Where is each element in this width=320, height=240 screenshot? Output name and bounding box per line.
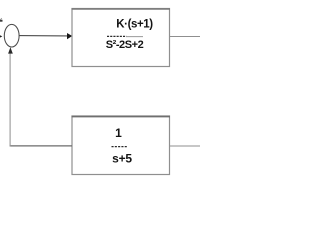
summing junction <box>4 24 19 47</box>
arrowhead into forward block <box>67 33 72 39</box>
arrowhead into summing junction (feedback) <box>8 47 13 53</box>
fraction bar of feedback block (dashed) <box>112 146 128 148</box>
feedback wire (right of block) <box>170 145 200 147</box>
feedback block top edge <box>72 116 171 118</box>
feedback wire (left of block) <box>10 145 72 147</box>
input arrowhead into summing junction <box>0 34 2 39</box>
feedback wire (vertical riser) <box>9 53 11 146</box>
svg-text:S²-2S+2: S²-2S+2 <box>106 39 144 51</box>
wire: summing junction to forward block <box>19 35 68 37</box>
feedback block H(s) <box>72 116 170 175</box>
output wire <box>170 36 200 38</box>
fraction bar of forward block <box>107 35 143 37</box>
input signal mark (clipped at left edge) <box>0 18 3 21</box>
svg-text:s+5: s+5 <box>112 152 132 166</box>
svg-text:K·(s+1): K·(s+1) <box>116 18 153 30</box>
svg-text:1: 1 <box>115 126 122 140</box>
forward block G(s) <box>72 9 170 67</box>
forward block top edge <box>72 8 171 10</box>
